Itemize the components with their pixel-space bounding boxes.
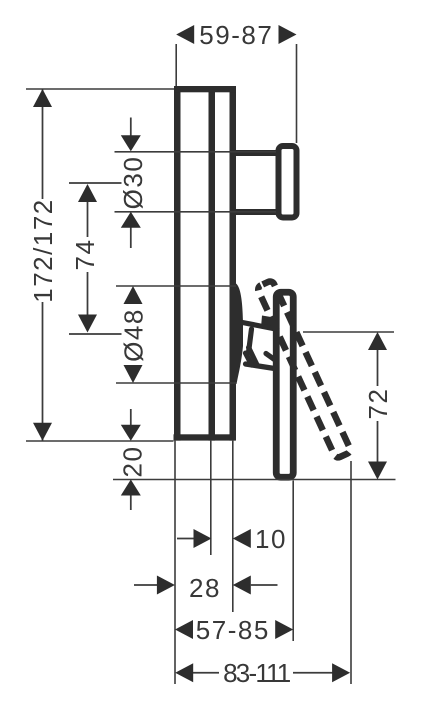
arrow 72 up [368, 332, 387, 350]
dimension lines [43, 89, 378, 673]
svg-text:59-87: 59-87 [199, 20, 273, 50]
arrow 28 right [157, 576, 175, 595]
arrow 20 up [121, 480, 141, 496]
ext 59-87 right [296, 44, 298, 143]
svg-text:Ø48: Ø48 [119, 308, 149, 362]
plate left wall [174, 86, 181, 441]
arrow d48 down [124, 365, 143, 383]
ext lever axis right [303, 331, 394, 333]
ext e2 below plate [210, 441, 212, 555]
svg-text:172/172: 172/172 [28, 198, 58, 302]
dim 83-111 lines [193, 672, 333, 674]
dim 20 stubs [130, 409, 132, 510]
svg-text:Ø30: Ø30 [118, 156, 148, 210]
svg-text:83-111: 83-111 [223, 658, 291, 688]
dim line 172 [42, 89, 44, 441]
lever dashed (rotated) [257, 280, 352, 459]
lever boss junction blob [261, 316, 274, 330]
arrow 20 down [121, 425, 141, 441]
dim 74 ticks and line [69, 183, 122, 334]
arrow 72 down [368, 462, 387, 480]
arrow 74 up [78, 184, 97, 202]
svg-text:10: 10 [255, 524, 287, 554]
arrow 10 left [233, 529, 251, 548]
dim line d30 stubs [130, 118, 132, 249]
arrow 59-87 left [176, 25, 194, 44]
plate top bar [174, 86, 236, 92]
svg-text:28: 28 [189, 573, 221, 603]
dim 28 stubs [134, 584, 278, 586]
thin extension lines [26, 44, 396, 684]
dim 10 stub [177, 538, 195, 540]
arrows [33, 25, 387, 682]
svg-text:72: 72 [363, 388, 393, 420]
lever solid [276, 292, 293, 477]
ext bottom reach [113, 479, 396, 481]
ext e3 below plate [232, 441, 234, 612]
plate right wall [230, 86, 237, 441]
plate middle wall [209, 86, 216, 441]
ext 59-87 left [175, 44, 177, 86]
arrow 172 down [33, 423, 52, 441]
svg-text:57-85: 57-85 [196, 615, 270, 645]
ext d48 bottom [116, 382, 236, 384]
arrow 83-111 right [332, 663, 350, 682]
ext plate top left [26, 88, 174, 90]
plate bottom bar [174, 434, 235, 440]
svg-text:74: 74 [70, 239, 100, 271]
arrow 10 right [194, 529, 212, 548]
ext e1 below plate [174, 441, 176, 684]
arrow 83-111 left [175, 663, 193, 682]
knob stem top wall [235, 150, 277, 156]
ext e5 dashed tip [350, 461, 352, 684]
arrow d30 bottom [121, 212, 141, 228]
arrow d48 up [124, 286, 143, 304]
ext knob bottom [115, 211, 277, 213]
arrow 28 left [233, 576, 251, 595]
arrow 57-85 left [175, 620, 193, 639]
arrow 59-87 right [279, 25, 297, 44]
ext knob top [115, 151, 277, 153]
arrow 74 down [78, 315, 97, 333]
arrow d30 top [121, 135, 141, 151]
dim line 72 [377, 349, 379, 463]
lever boss strokes [243, 323, 284, 370]
cartridge wedge [230, 284, 244, 385]
ext e4 below lever [292, 481, 294, 642]
ext plate bottom left [26, 440, 174, 442]
knob end cap [279, 146, 297, 218]
knob stem bottom wall [235, 209, 277, 215]
arrow 172 up [33, 89, 52, 107]
ext d48 top [116, 285, 236, 287]
arrow 57-85 right [275, 620, 293, 639]
svg-text:20: 20 [118, 446, 148, 478]
